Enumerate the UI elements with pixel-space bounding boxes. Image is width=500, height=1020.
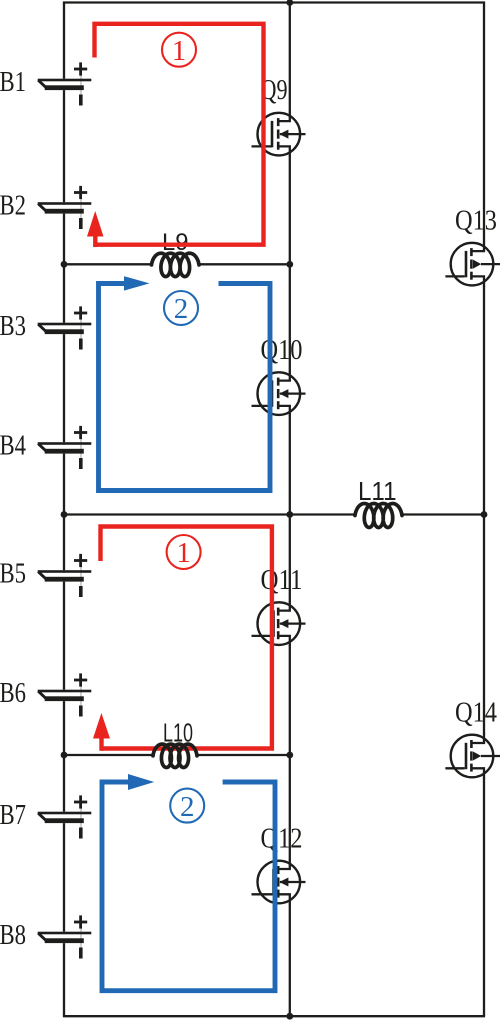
svg-text:B6: B6	[0, 677, 26, 709]
svg-text:Q14: Q14	[455, 696, 497, 728]
svg-text:1: 1	[172, 35, 187, 67]
svg-text:Q11: Q11	[261, 564, 303, 596]
svg-text:Q13: Q13	[455, 205, 497, 237]
svg-text:1: 1	[176, 537, 191, 569]
svg-text:L11: L11	[358, 476, 397, 506]
svg-text:B7: B7	[0, 799, 26, 831]
svg-text:B5: B5	[0, 557, 26, 589]
svg-text:Q10: Q10	[261, 334, 303, 366]
svg-text:Q12: Q12	[261, 822, 303, 854]
svg-text:B1: B1	[0, 66, 26, 98]
svg-text:2: 2	[174, 293, 189, 325]
svg-text:B4: B4	[0, 429, 26, 461]
svg-text:B2: B2	[0, 189, 26, 221]
svg-text:B3: B3	[0, 310, 26, 342]
svg-text:B8: B8	[0, 919, 26, 951]
svg-text:2: 2	[180, 791, 195, 823]
